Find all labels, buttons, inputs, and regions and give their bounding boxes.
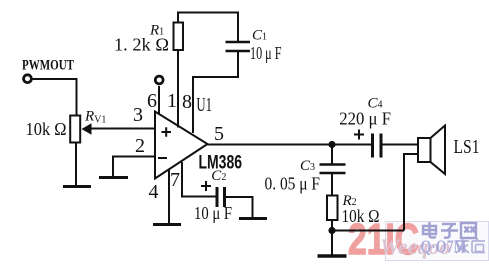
watermark shuku glyph 1 [456,239,485,254]
svg-text:6: 6 [147,90,157,112]
junction bottom node [328,227,335,234]
ground (pin 2) [99,176,128,179]
svg-text:7: 7 [170,169,180,191]
potentiometer RV1 body [70,116,80,143]
ground (pin 4) [153,223,181,226]
bypass terminal pin 6 [155,76,163,84]
svg-text:1: 1 [167,90,177,112]
wire pin 1 to R1 [177,51,179,128]
svg-text:10k Ω: 10k Ω [26,119,67,139]
input terminal PWMOUT [24,75,32,83]
capacitor C1 plates [226,42,251,51]
resistor R1 body [174,23,184,51]
speaker LS1 horn [431,126,446,175]
svg-text:2: 2 [135,135,145,157]
wire R1 top to C1 top [178,13,238,43]
svg-text:10 μ F: 10 μ F [194,203,232,223]
op-amp minus mark [158,157,167,159]
wire junction to C3 [331,145,333,165]
svg-text:4: 4 [149,181,159,203]
svg-text:1. 2k Ω: 1. 2k Ω [114,35,169,55]
svg-text:U1: U1 [196,94,212,116]
capacitor C3 plates [320,165,346,174]
svg-text:0. 05 μ F: 0. 05 μ F [265,174,321,194]
wire pin 6 [158,86,160,115]
op-amp plus mark [162,127,172,137]
wire pin 4 to ground [168,170,170,224]
watermark dianziwang glyph zi [441,224,458,238]
svg-text:PWMOUT: PWMOUT [22,58,74,74]
ground (R2) [318,254,347,258]
wire C2 right to ground [226,197,253,218]
wire C3 to R2 [331,174,333,196]
wire input to potentiometer top [32,79,77,115]
capacitor C4 plates [373,134,382,158]
svg-text:3: 3 [133,104,143,126]
ground (pot) [63,185,91,188]
C4 plus sign [354,130,364,140]
ground (C2) [239,217,267,220]
op-amp U1 triangle [155,112,208,179]
svg-text:10 μ F: 10 μ F [250,43,282,63]
svg-text:8: 8 [182,91,192,113]
watermark background box [386,222,489,261]
svg-text:5: 5 [214,123,224,145]
wire pin 7 to C2 [182,162,216,197]
svg-text:10k Ω: 10k Ω [342,206,380,226]
watermark dianziwang glyph wang [461,223,476,238]
wire speaker return [404,154,417,231]
watermark dianziwang glyph dian [423,222,476,238]
C2 plus sign [201,181,211,191]
svg-text:LS1: LS1 [454,136,480,158]
wire bottom return [332,230,404,232]
wire C4 to speaker [383,144,418,146]
wire R2 bottom [331,221,333,255]
resistor R2 body [327,196,338,221]
wire wiper to pin 3 [91,128,154,130]
speaker LS1 box [418,138,431,162]
wire pot bottom to ground [75,144,77,187]
junction output node [328,141,335,148]
wire output pin 5 to C4 [208,144,372,146]
capacitor C2 plates [217,187,225,207]
svg-text:220 μ F: 220 μ F [339,109,391,129]
potentiometer RV1 wiper arrow [82,123,92,134]
watermark shuku glyph 2 [472,239,485,253]
wire C1 bottom to pin 8 [193,52,238,133]
wire pin 2 to ground [113,157,155,177]
